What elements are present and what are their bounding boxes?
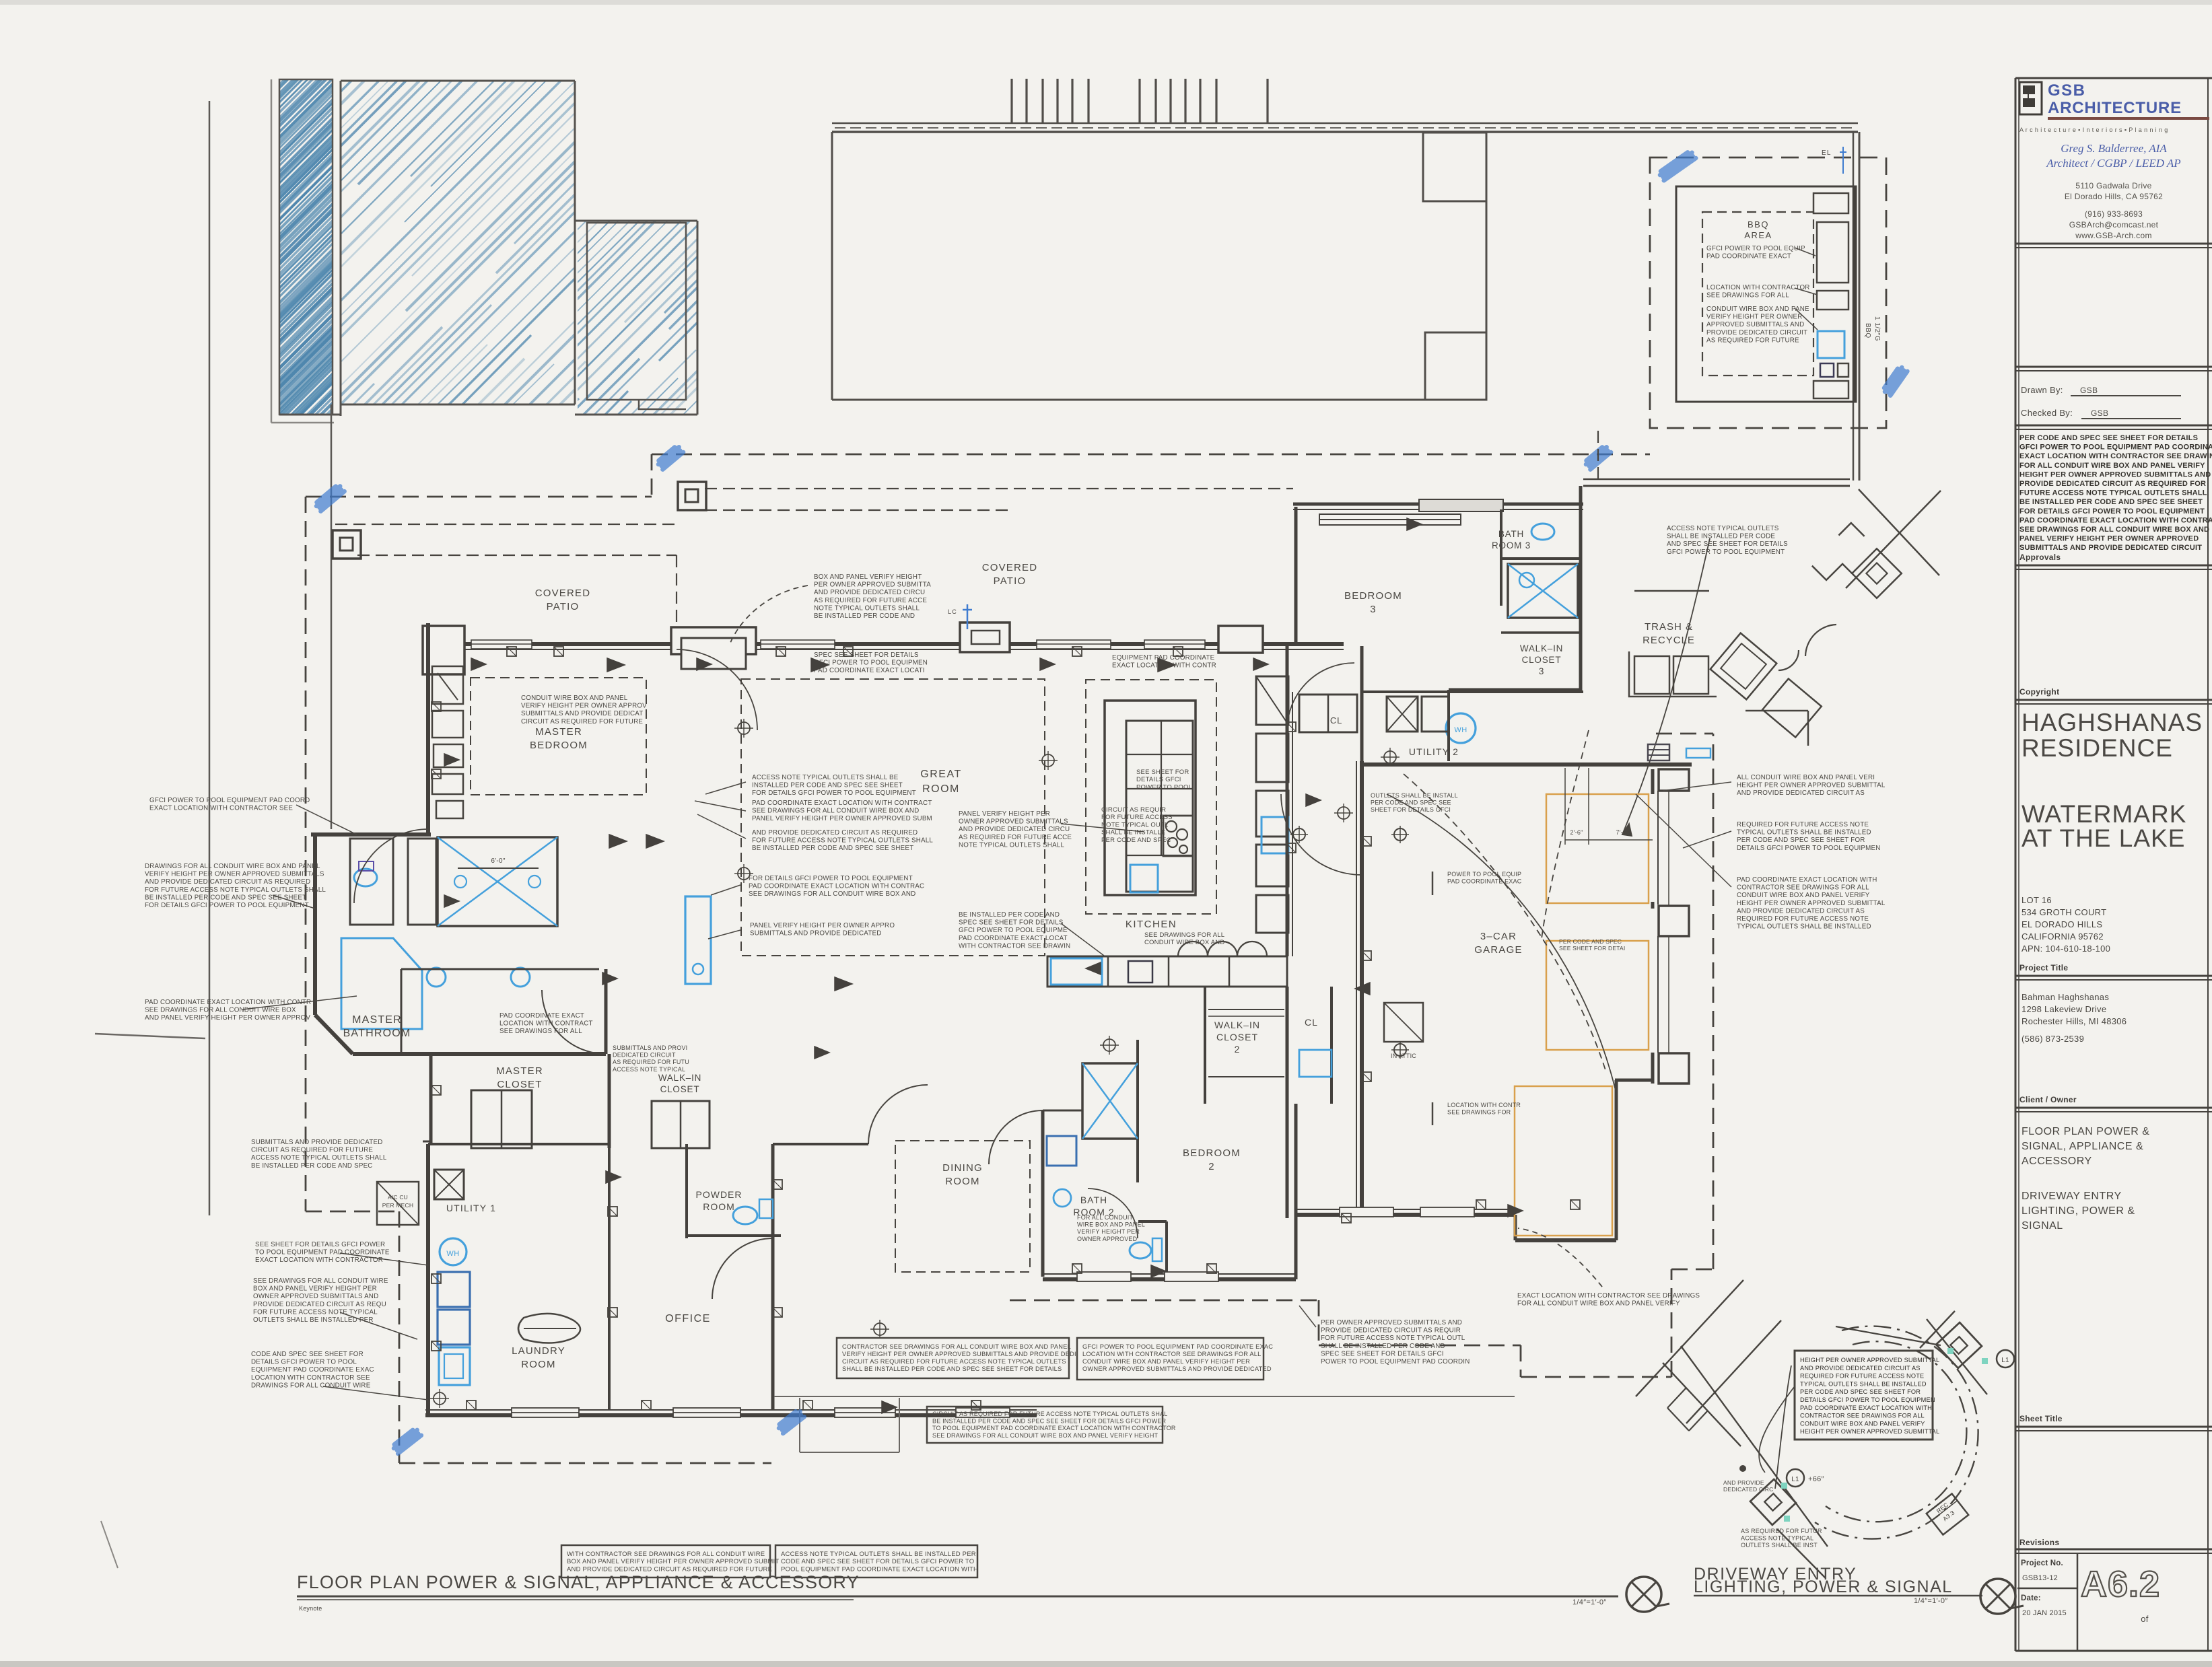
gate key symbol: [1810, 523, 1902, 614]
svg-text:3: 3: [1539, 666, 1544, 676]
svg-text:RECYCLE: RECYCLE: [1643, 635, 1695, 646]
svg-text:2: 2: [1235, 1044, 1241, 1055]
svg-text:1 1/2″G: 1 1/2″G: [1873, 316, 1881, 341]
svg-text:EL: EL: [1822, 149, 1832, 157]
master bath inner fixtures: [341, 938, 422, 1029]
svg-text:SEE DRAWINGS FOR ALLCONDUIT WI: SEE DRAWINGS FOR ALLCONDUIT WIRE BOX AND: [1144, 931, 1224, 946]
south wall office wing: [425, 1413, 1037, 1417]
svg-text:CLOSET: CLOSET: [660, 1084, 700, 1094]
svg-text:DRAWINGS FOR ALL CONDUIT WIRE: DRAWINGS FOR ALL CONDUIT WIRE BOX AND PA…: [145, 863, 326, 909]
bbq pen marks: [1659, 150, 1696, 180]
svg-text:2′-6″: 2′-6″: [1570, 829, 1583, 836]
leaders from note: [1775, 1365, 1791, 1489]
vanity wall: [401, 968, 599, 970]
title block frame: [2015, 78, 2017, 1651]
svg-text:CL: CL: [1305, 1017, 1318, 1028]
svg-text:HAGHSHANAS: HAGHSHANAS: [2021, 709, 2203, 736]
garage door jambs: [1659, 769, 1689, 791]
windows south: [512, 1408, 579, 1417]
svg-text:BEDROOM: BEDROOM: [1183, 1147, 1241, 1159]
svg-text:PANEL VERIFY HEIGHT PER OWNER: PANEL VERIFY HEIGHT PER OWNER APPROSUBMI…: [750, 922, 895, 937]
svg-text:RESIDENCE: RESIDENCE: [2021, 734, 2173, 762]
svg-text:UTILITY 2: UTILITY 2: [1409, 746, 1459, 757]
garage interior dots: [1394, 828, 1406, 841]
svg-text:GFCI POWER TO POOL EQUIPMENT P: GFCI POWER TO POOL EQUIPMENT PAD COORDEX…: [149, 797, 310, 812]
dashed overhang left: [306, 496, 652, 498]
svg-text:Keynote: Keynote: [299, 1605, 322, 1612]
svg-text:SPEC SEE SHEET FOR DETAILSGFCI: SPEC SEE SHEET FOR DETAILSGFCI POWER TO …: [814, 651, 928, 674]
svg-text:PAD COORDINATE EXACT LOCATION: PAD COORDINATE EXACT LOCATION WITHCONTRA…: [1737, 876, 1886, 931]
svg-text:PER CODE AND SPEC SEE SHEET FO: PER CODE AND SPEC SEE SHEET FOR DETAILSG…: [2019, 434, 2212, 552]
svg-text:BATH: BATH: [1498, 529, 1524, 539]
svg-text:PER MECH: PER MECH: [382, 1202, 413, 1209]
svg-text:BEDROOM: BEDROOM: [1344, 590, 1402, 602]
svg-text:1298 Lakeview Drive: 1298 Lakeview Drive: [2021, 1004, 2106, 1014]
svg-text:of: of: [2141, 1614, 2149, 1624]
svg-text:AT THE LAKE: AT THE LAKE: [2021, 824, 2185, 852]
pen scribbles patio: [314, 484, 344, 511]
svg-text:Approvals: Approvals: [2019, 553, 2061, 562]
garage service panel: [1648, 744, 1669, 760]
slab right notches: [1423, 133, 1486, 201]
svg-text:POWDER: POWDER: [696, 1189, 742, 1200]
lamp L1 lower: [1787, 1469, 1804, 1487]
curved leader to pool equip: [1622, 538, 1710, 835]
svg-text:WATERMARK: WATERMARK: [2021, 800, 2186, 828]
svg-text:AND PROVIDE DEDICATED CIRCUIT: AND PROVIDE DEDICATED CIRCUIT AS REQUIRE…: [752, 829, 933, 852]
svg-text:GREAT: GREAT: [920, 769, 961, 780]
svg-text:PATIO: PATIO: [547, 601, 580, 612]
svg-text:A/C CU: A/C CU: [388, 1194, 408, 1201]
pool extension hatch: [392, 221, 1088, 415]
svg-text:ACCESSORY: ACCESSORY: [2021, 1156, 2092, 1167]
west wing wall: [426, 1144, 430, 1417]
bath3 shower: [1508, 564, 1578, 618]
bedroom2 wing: [1041, 1110, 1045, 1277]
svg-text:LOT 16: LOT 16: [2021, 895, 2052, 905]
top wall window sills: [471, 640, 532, 649]
powder room: [685, 1144, 688, 1238]
svg-text:PAD COORDINATE EXACT LOCATION: PAD COORDINATE EXACT LOCATION WITH CONTR…: [145, 999, 311, 1022]
svg-text:Checked By:: Checked By:: [2021, 408, 2073, 418]
svg-text:CONDUIT WIRE BOX AND PANEVERIF: CONDUIT WIRE BOX AND PANEVERIFY HEIGHT P…: [1706, 306, 1809, 344]
dashed patio beams: [335, 524, 675, 525]
svg-text:FLOOR PLAN POWER & SIGNAL,: FLOOR PLAN POWER & SIGNAL, APPLIANCE & A…: [297, 1572, 860, 1592]
gate diagonal X: [1859, 489, 1939, 575]
svg-text:TRASH &: TRASH &: [1645, 621, 1693, 633]
svg-text:ACCESS NOTE TYPICAL OUTLETS SH: ACCESS NOTE TYPICAL OUTLETS SHALL BE INS…: [781, 1551, 978, 1573]
svg-text:6′-0″: 6′-0″: [491, 857, 506, 865]
svg-text:ROOM: ROOM: [703, 1201, 735, 1212]
svg-text:CONTRACTOR SEE DRAWINGS FOR AL: CONTRACTOR SEE DRAWINGS FOR ALL CONDUIT …: [842, 1343, 1076, 1372]
svg-text:CL: CL: [1330, 715, 1342, 725]
driveway edge through post: [1681, 1346, 1828, 1547]
A/C units: [377, 1182, 419, 1225]
stray line left margin: [95, 1034, 205, 1038]
svg-text:Client / Owner: Client / Owner: [2019, 1095, 2077, 1104]
bath2 shower: [1082, 1063, 1138, 1139]
pool main water hatch: [28, 81, 1227, 404]
gate post upper: [1936, 1322, 1982, 1368]
site line below pool: [331, 404, 333, 829]
svg-text:20 JAN 2015: 20 JAN 2015: [2022, 1609, 2067, 1617]
svg-text:WALK–IN: WALK–IN: [1214, 1020, 1260, 1030]
svg-text:REQUIRED FOR FUTURE ACCESS NOT: REQUIRED FOR FUTURE ACCESS NOTETYPICAL O…: [1737, 821, 1881, 852]
gate swing arcs: [1805, 625, 1836, 656]
svg-text:CIRCUIT AS REQUIRED FOR FUTURE: CIRCUIT AS REQUIRED FOR FUTURE ACCESS NO…: [932, 1411, 1176, 1439]
bedroom3 wing walls: [1294, 507, 1298, 646]
svg-text:LC: LC: [948, 608, 957, 615]
svg-text:Date:: Date:: [2021, 1594, 2041, 1602]
attic access: [1384, 1003, 1423, 1042]
office east wall: [771, 1144, 775, 1410]
svg-text:A r c h i t e c t u r e ▪: A r c h i t e c t u r e ▪ I n t e r i o …: [2019, 127, 2168, 133]
svg-text:GSBArch@comcast.net: GSBArch@comcast.net: [2069, 220, 2159, 229]
site line left: [209, 101, 211, 1215]
svg-text:GSB: GSB: [2048, 81, 2086, 100]
svg-text:BATHROOM: BATHROOM: [343, 1028, 411, 1039]
island sink details: [1163, 816, 1193, 856]
svg-text:BEDROOM: BEDROOM: [530, 740, 588, 751]
bbq solid room: [1676, 186, 1856, 402]
svg-text:SEE SHEET FOR DETAILS GFCI POW: SEE SHEET FOR DETAILS GFCI POWERTO POOL …: [255, 1241, 390, 1264]
svg-text:ROOM: ROOM: [945, 1176, 979, 1187]
copyright paragraph: [2019, 434, 2212, 552]
slab tick marks: [1010, 79, 1012, 123]
upper hall cabinets: [1299, 695, 1357, 732]
svg-text:Sheet Title: Sheet Title: [2019, 1414, 2063, 1423]
svg-text:5110 Gadwala Drive: 5110 Gadwala Drive: [2075, 181, 2151, 190]
svg-text:FLOOR PLAN POWER &: FLOOR PLAN POWER &: [2021, 1126, 2149, 1137]
garage doors orange: [1546, 794, 1649, 903]
garage east wall: [1651, 769, 1655, 794]
svg-text:7′-6″: 7′-6″: [1616, 829, 1629, 836]
svg-text:Greg S. Balderree, AIA: Greg S. Balderree, AIA: [2061, 142, 2167, 155]
svg-text:Rochester Hills, MI 48306: Rochester Hills, MI 48306: [2021, 1016, 2127, 1026]
road pair NE-SW: [1636, 1280, 1743, 1396]
boxed notes bottom: [561, 1545, 770, 1577]
svg-text:Project No.: Project No.: [2021, 1559, 2063, 1567]
svg-text:IN ATTIC: IN ATTIC: [1391, 1053, 1416, 1059]
laundry/office dividing: [608, 1144, 611, 1410]
entry hall walls: [773, 1143, 868, 1145]
svg-text:UTILITY 1: UTILITY 1: [446, 1203, 496, 1213]
svg-text:LIGHTING, POWER &: LIGHTING, POWER &: [2021, 1205, 2135, 1217]
svg-text:BBQ: BBQ: [1748, 219, 1769, 229]
wall arrows: [471, 658, 486, 670]
svg-text:CIRCUIT AS REQUIRFOR FUTURE AC: CIRCUIT AS REQUIRFOR FUTURE ACCESSNOTE T…: [1101, 806, 1173, 844]
master tub: [408, 839, 436, 925]
svg-text:Revisions: Revisions: [2019, 1538, 2059, 1547]
svg-text:WITH CONTRACTOR SEE DRAWINGS F: WITH CONTRACTOR SEE DRAWINGS FOR ALL CON…: [567, 1551, 779, 1573]
pool walls: [279, 79, 333, 415]
svg-text:ROOM: ROOM: [521, 1359, 555, 1370]
svg-text:PER CODE AND SPECSEE SHEET FOR: PER CODE AND SPECSEE SHEET FOR DETAI: [1559, 938, 1625, 952]
svg-text:GFCI POWER TO POOL EQUIPMENT P: GFCI POWER TO POOL EQUIPMENT PAD COORDIN…: [1082, 1343, 1273, 1372]
svg-text:A6.2: A6.2: [2081, 1564, 2160, 1604]
utility1 / laundry walls: [428, 1143, 609, 1145]
svg-text:WALK–IN: WALK–IN: [658, 1073, 701, 1083]
west wall column of av boxes: [432, 666, 463, 704]
svg-text:EXACT LOCATION WITH CONTRACTOR: EXACT LOCATION WITH CONTRACTOR SEE DRAWI…: [1517, 1292, 1700, 1308]
garage dim lines: [1564, 768, 1566, 845]
driveway boxed note: [1795, 1351, 1933, 1440]
utility2 area: [1362, 690, 1583, 693]
svg-text:Copyright: Copyright: [2019, 687, 2059, 697]
rec stamp: [1927, 1493, 1968, 1534]
svg-text:MASTER: MASTER: [535, 726, 582, 738]
crosshair symbols: [738, 722, 750, 734]
kitchen island: [1105, 701, 1196, 895]
svg-text:WALK–IN: WALK–IN: [1520, 643, 1563, 653]
pool hatched band: [0, 79, 1003, 415]
big dashed arcs: [1815, 1326, 1978, 1539]
svg-text:WH: WH: [1454, 726, 1467, 734]
svg-text:SUBMITTALS AND PROVIDE DEDICAT: SUBMITTALS AND PROVIDE DEDICATEDCIRCUIT …: [251, 1139, 387, 1170]
svg-text:AS REQUIRED FOR FUTURACCESS NO: AS REQUIRED FOR FUTURACCESS NOTE TYPICAL…: [1741, 1528, 1822, 1549]
bed3 closet walls: [1447, 690, 1450, 761]
svg-text:APN: 104-610-18-100: APN: 104-610-18-100: [2021, 944, 2110, 954]
upper post line: [1927, 1319, 1987, 1394]
master wing west wall: [426, 623, 430, 835]
main north wall: [424, 642, 1344, 646]
svg-text:CALIFORNIA 95762: CALIFORNIA 95762: [2021, 931, 2104, 942]
svg-text:KITCHEN: KITCHEN: [1126, 919, 1177, 930]
svg-text:SUBMITTALS AND PROVIDEDICATED: SUBMITTALS AND PROVIDEDICATED CIRCUITAS …: [613, 1044, 689, 1073]
north wall piers: [423, 626, 464, 674]
patio posts: [333, 530, 361, 559]
svg-text:GARAGE: GARAGE: [1474, 944, 1522, 956]
svg-text:LOCATION WITH CONTRSEE DRAWING: LOCATION WITH CONTRSEE DRAWINGS FOR: [1447, 1102, 1521, 1116]
svg-text:CLOSET: CLOSET: [497, 1079, 542, 1090]
kitchen dashed: [1086, 680, 1216, 914]
entry porch outline: [799, 1398, 800, 1452]
svg-text:GSB: GSB: [2091, 409, 2108, 418]
wall small arrows: [607, 658, 625, 672]
svg-text:(586) 873-2539: (586) 873-2539: [2021, 1034, 2084, 1044]
big slab rectangle: [832, 122, 1858, 125]
laundry tub: [518, 1314, 580, 1343]
svg-text:MASTER: MASTER: [496, 1065, 543, 1077]
svg-text:www.GSB-Arch.com: www.GSB-Arch.com: [2075, 231, 2152, 240]
lamp L1 upper: [1997, 1350, 2014, 1368]
svg-text:ROOM 3: ROOM 3: [1492, 540, 1531, 551]
yard wall to gate: [1583, 478, 1850, 481]
svg-text:PAD COORDINATE EXACT LOCATION: PAD COORDINATE EXACT LOCATION WITH CONTR…: [752, 800, 932, 822]
svg-text:CODE AND SPEC SEE SHEET FORDET: CODE AND SPEC SEE SHEET FORDETAILS GFCI …: [251, 1351, 374, 1389]
gsb logo: [2019, 82, 2042, 114]
svg-text:PAD COORDINATE EXACTLOCATION W: PAD COORDINATE EXACTLOCATION WITH CONTRA…: [499, 1012, 593, 1035]
bbq counter appliances: [1813, 193, 1848, 213]
svg-text:OFFICE: OFFICE: [665, 1313, 711, 1324]
appliance wall east of kitchen: [1256, 676, 1288, 725]
project no box: [2077, 1553, 2079, 1651]
closet rods: [1208, 1009, 1284, 1010]
svg-text:LIGHTING, POWER & SIGNAL: LIGHTING, POWER & SIGNAL: [1694, 1577, 1953, 1596]
svg-text:DINING: DINING: [942, 1162, 983, 1174]
svg-text:Drawn By:: Drawn By:: [2021, 385, 2063, 395]
gate post lower: [1750, 1479, 1796, 1525]
top wall blue bits: [967, 604, 969, 629]
bottom pen scribbles: [392, 1428, 421, 1454]
svg-text:SEE DRAWINGS FOR ALL CONDUIT W: SEE DRAWINGS FOR ALL CONDUIT WIREBOX AND…: [253, 1277, 388, 1324]
terrace edge line: [774, 1396, 1515, 1397]
bbq dashed outline: [1650, 157, 1886, 428]
svg-text:L1: L1: [1791, 1476, 1799, 1483]
master closet: [429, 1054, 433, 1144]
svg-text:ARCHITECTURE: ARCHITECTURE: [2048, 99, 2182, 117]
svg-text:+66″: +66″: [1808, 1475, 1824, 1483]
svg-text:CLOSET: CLOSET: [1522, 655, 1562, 665]
svg-text:BOX AND PANEL VERIFY HEIGHTPER: BOX AND PANEL VERIFY HEIGHTPER OWNER APP…: [814, 573, 931, 620]
walk-in closet 2: [1204, 987, 1206, 1104]
svg-text:1/4″=1′-0″: 1/4″=1′-0″: [1572, 1598, 1606, 1606]
pool outer boundary: [271, 79, 273, 423]
svg-text:3–CAR: 3–CAR: [1480, 931, 1517, 942]
svg-text:GSB: GSB: [2080, 386, 2098, 395]
svg-text:(916) 933-8693: (916) 933-8693: [2085, 209, 2143, 219]
svg-text:L1: L1: [2001, 1357, 2009, 1364]
master bath outline: [311, 832, 431, 837]
svg-text:BE INSTALLED PER CODE ANDSPEC: BE INSTALLED PER CODE ANDSPEC SEE SHEET …: [959, 911, 1070, 950]
master bedroom dashes: [471, 678, 646, 795]
kitchen counter south: [1047, 956, 1287, 987]
bed3 window band: [1319, 514, 1461, 525]
svg-text:ALL CONDUIT WIRE BOX AND PANEL: ALL CONDUIT WIRE BOX AND PANEL VERIHEIGH…: [1737, 774, 1886, 797]
svg-text:POWER TO POOL EQUIPPAD COORDIN: POWER TO POOL EQUIPPAD COORDINATE EXAC: [1447, 871, 1522, 885]
garage curved leaders: [1542, 730, 1589, 939]
curb jog: [1667, 1388, 1708, 1431]
fireplace: [685, 896, 711, 984]
svg-text:3: 3: [1370, 604, 1377, 615]
svg-text:ACCESS NOTE TYPICAL OUTLETSSHA: ACCESS NOTE TYPICAL OUTLETSSHALL BE INST…: [1667, 525, 1788, 556]
svg-text:DRIVEWAY ENTRY: DRIVEWAY ENTRY: [2021, 1191, 2122, 1202]
svg-text:534 GROTH COURT: 534 GROTH COURT: [2021, 907, 2106, 917]
dashed overhang top: [651, 454, 653, 497]
svg-text:GFCI POWER TO POOL EQUIPPAD CO: GFCI POWER TO POOL EQUIPPAD COORDINATE E…: [1706, 245, 1805, 260]
svg-text:HEIGHT PER OWNER APPROVED SUBM: HEIGHT PER OWNER APPROVED SUBMITTALAND P…: [1800, 1357, 1939, 1435]
bath closet block: [350, 839, 393, 925]
svg-text:COVERED: COVERED: [535, 588, 591, 599]
east corridor walls: [1286, 646, 1289, 956]
svg-text:1/4″=1′-0″: 1/4″=1′-0″: [1914, 1597, 1947, 1605]
svg-text:Architect / CGBP / LEED AP: Architect / CGBP / LEED AP: [2046, 157, 2180, 170]
svg-text:FOR DETAILS GFCI POWER TO POOL: FOR DETAILS GFCI POWER TO POOL EQUIPMENT…: [749, 875, 924, 898]
svg-text:SIGNAL, APPLIANCE &: SIGNAL, APPLIANCE &: [2021, 1141, 2143, 1152]
svg-text:WH: WH: [446, 1250, 459, 1258]
svg-text:ROOM: ROOM: [922, 783, 960, 795]
washer dryer: [438, 1272, 470, 1307]
svg-text:Project Title: Project Title: [2019, 963, 2068, 972]
trash wall corner: [1746, 710, 1808, 712]
east yard wall: [1853, 132, 1855, 481]
svg-text:MASTER: MASTER: [352, 1014, 402, 1026]
outlet ticks along walls: [507, 647, 516, 656]
svg-text:CLOSET: CLOSET: [1216, 1032, 1258, 1042]
svg-text:PATIO: PATIO: [994, 575, 1027, 587]
bbq inner dashed: [1702, 212, 1813, 376]
svg-text:ACCESS NOTE TYPICAL OUTLETS SH: ACCESS NOTE TYPICAL OUTLETS SHALL BEINST…: [752, 774, 916, 797]
svg-text:2: 2: [1208, 1161, 1215, 1172]
great room dashed: [741, 679, 1045, 956]
driveway edge lower-left: [1663, 1363, 1741, 1446]
svg-text:BBQ: BBQ: [1864, 323, 1871, 339]
empty stamp box: [2015, 366, 2212, 368]
svg-text:SIGNAL: SIGNAL: [2021, 1220, 2063, 1232]
svg-text:Bahman Haghshanas: Bahman Haghshanas: [2021, 992, 2109, 1002]
svg-text:GSB13-12: GSB13-12: [2022, 1574, 2058, 1582]
svg-text:COVERED: COVERED: [982, 562, 1038, 573]
svg-text:BATH: BATH: [1080, 1195, 1107, 1205]
svg-text:LAUNDRY: LAUNDRY: [512, 1345, 565, 1357]
dashed SE boundary: [1010, 1300, 1319, 1302]
svg-text:EL DORADO HILLS: EL DORADO HILLS: [2021, 919, 2102, 929]
svg-text:El Dorado Hills, CA 95762: El Dorado Hills, CA 95762: [2065, 192, 2163, 201]
svg-text:AREA: AREA: [1744, 230, 1772, 240]
interior door arcs: [542, 990, 606, 1054]
garage walls: [1360, 761, 1364, 1215]
